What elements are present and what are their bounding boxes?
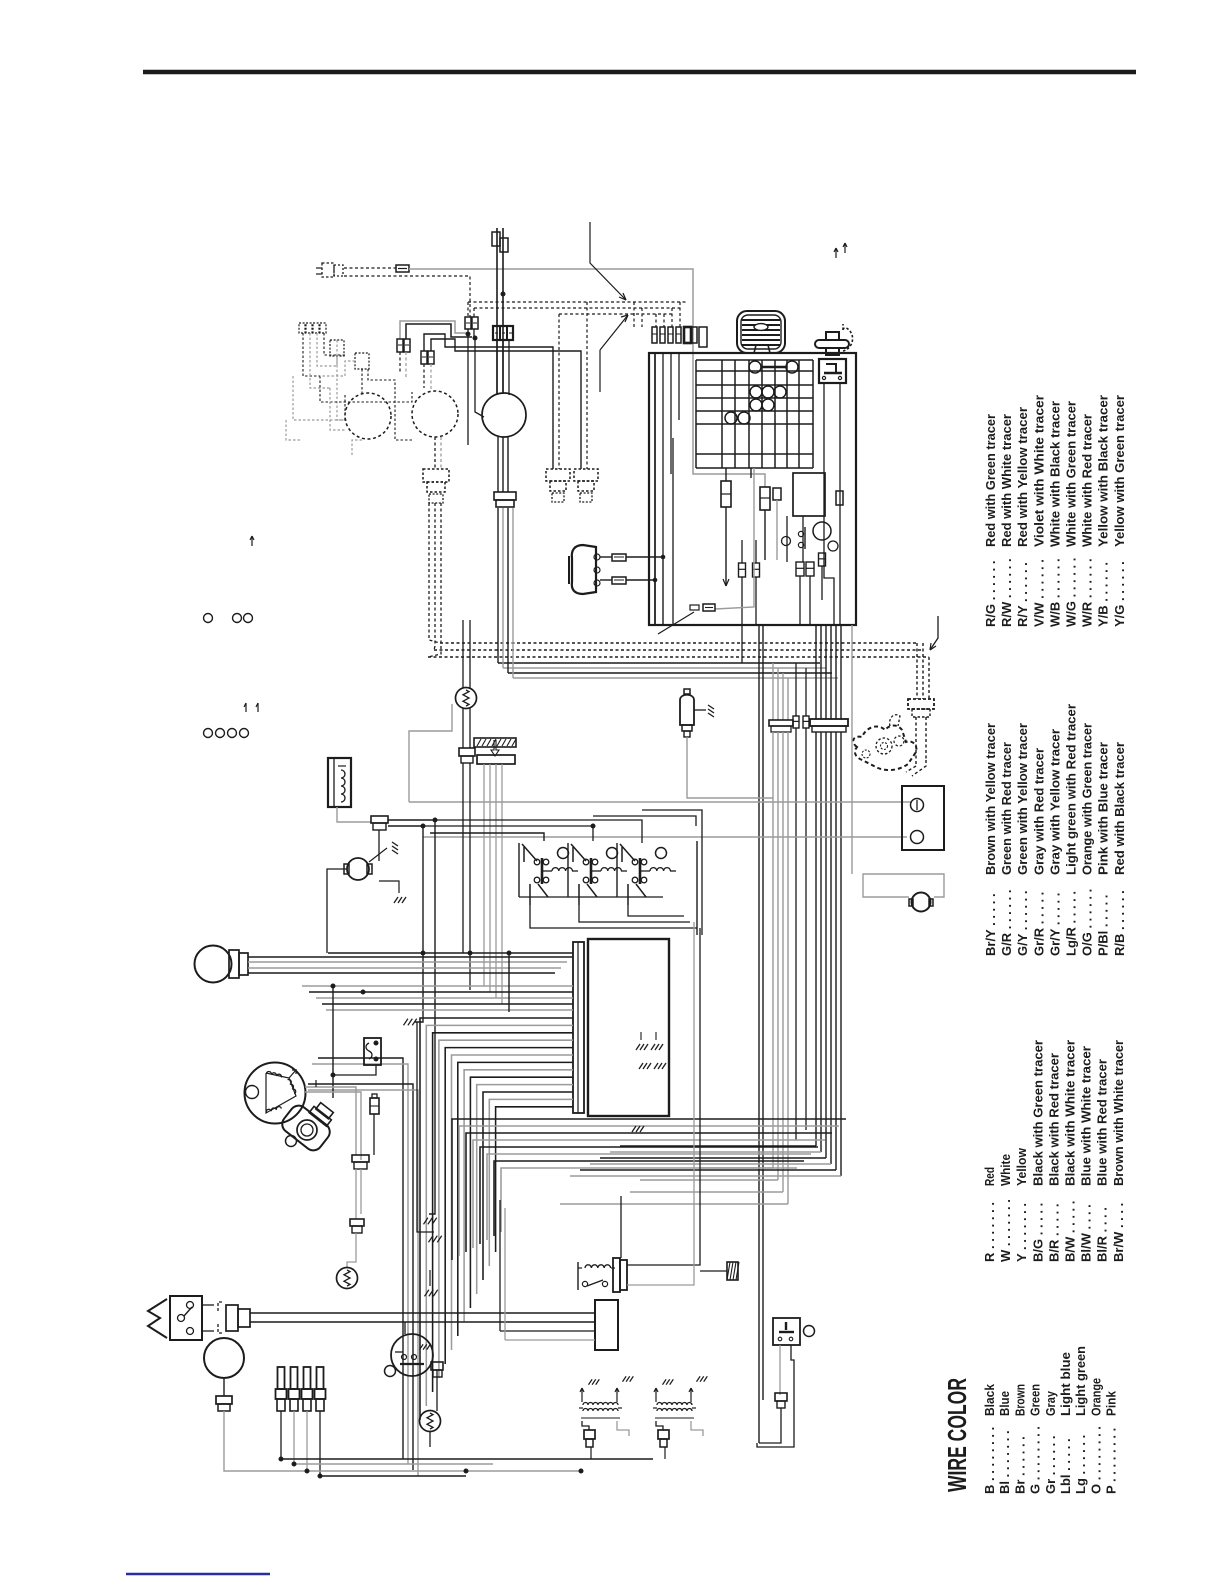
wire [409,269,765,487]
wire [423,826,593,841]
fuse F10 [753,563,760,577]
svg-text:Gray with Yellow tracer: Gray with Yellow tracer [1047,729,1062,875]
contact [798,542,803,547]
svg-text:V/W . . . . . .: V/W . . . . . . [1031,559,1046,627]
wire [369,848,387,862]
ignition switch key [815,324,853,355]
svg-text:Red with Black tracer: Red with Black tracer [1112,742,1127,875]
option lamp pair [233,614,253,623]
wire [755,540,757,563]
turn signal wiring [286,333,412,455]
relay unit 3 [617,843,676,905]
connector [459,748,475,763]
svg-text:R/Y . . . . . .: R/Y . . . . . . [1015,562,1030,627]
wire pair [759,625,763,1443]
fuse F2 [397,339,410,352]
wire [320,1475,466,1477]
svg-text:Green with Red tracer: Green with Red tracer [999,742,1014,875]
svg-text:Lg/R . . . . .: Lg/R . . . . . [1064,891,1079,956]
fuse F1 [396,265,409,272]
option lamp row [204,729,249,738]
svg-text:Bl/R . . . .: Bl/R . . . . [1095,1207,1110,1262]
fuse F3 [421,351,434,364]
wire [620,1196,622,1258]
wire [436,1370,438,1411]
wire [723,507,729,586]
svg-text:WIRE COLOR: WIRE COLOR [942,1378,972,1492]
svg-text:Red with Yellow tracer: Red with Yellow tracer [1015,407,1030,547]
svg-text:Black: Black [982,1383,997,1416]
lower wire fan [452,1119,846,1260]
wire [508,953,510,1012]
relay unit 1 [519,843,578,905]
spark plug cap 2 [289,1367,300,1411]
pointer arrow [930,616,938,650]
ground [394,897,406,903]
svg-text:Brown with White tracer: Brown with White tracer [1111,1040,1126,1186]
wire [559,313,672,315]
wire [360,1169,362,1214]
wire [306,1411,308,1470]
wire [696,841,698,935]
lamp connector [355,353,369,369]
ignition switch lead arrows [834,243,847,258]
regulator [364,1038,381,1065]
fuse F7 [760,487,770,510]
svg-text:Red with White tracer: Red with White tracer [999,414,1014,547]
svg-text:Pink: Pink [1104,1390,1119,1416]
wire [468,301,688,303]
bulb B4 [725,412,750,424]
wire [655,353,679,580]
wire [507,508,509,673]
wire [741,540,743,563]
frame sketch detail [862,715,904,758]
svg-text:Br/Y . . . . .: Br/Y . . . . . [983,893,998,956]
wire [786,516,788,562]
svg-text:White: White [998,1154,1013,1186]
arrow [250,536,254,546]
small circle [828,541,838,551]
wire [626,579,655,581]
wire [251,1470,581,1472]
thermo unit [420,1411,441,1432]
wire [700,1270,727,1272]
wire [503,667,826,669]
wire [725,468,727,481]
wire [851,625,853,874]
wire [791,1345,794,1400]
alternator [245,1063,306,1124]
wire [513,677,838,679]
wire [654,580,656,625]
ground [424,1218,437,1225]
svg-text:Violet with White tracer: Violet with White tracer [1031,395,1046,547]
wire [671,308,673,327]
svg-text:Red: Red [982,1167,997,1186]
svg-text:W/B . . . . . .: W/B . . . . . . [1047,558,1062,627]
svg-text:R/B . . . . . .: R/B . . . . . . [1112,890,1127,956]
wire [333,1065,376,1075]
bottom blue rule [126,1573,270,1576]
wire [640,1032,642,1040]
wire loop [759,1408,781,1443]
wire [694,709,706,711]
wire bundle [816,625,841,719]
wire [802,516,804,562]
wire [654,353,656,625]
svg-text:W/G . . . . . .: W/G . . . . . . [1064,558,1079,627]
wire [821,566,823,600]
wire [498,662,820,664]
wire loop2 [757,1400,794,1447]
contact [782,537,791,546]
pointer line [590,222,626,300]
lamp [385,1366,396,1377]
wire [224,1411,251,1471]
wire bundle [773,732,788,1204]
ground block [727,1262,739,1280]
wire [428,503,441,657]
wire [337,807,371,822]
headlight [195,946,249,983]
svg-text:Light green with Red tracer: Light green with Red tracer [1064,704,1079,875]
wire [332,1075,334,1098]
spark plug cap 1 [276,1367,287,1411]
svg-text:Black with White tracer: Black with White tracer [1063,1040,1078,1186]
wire bundle [816,732,841,1176]
wire [430,833,544,841]
wire [327,869,347,953]
wire [628,884,684,916]
harness connector [908,699,934,717]
wire [424,334,553,469]
horn low [909,893,933,912]
condenser [680,689,694,737]
connector pin row [652,327,707,347]
main wire bundle [420,1018,573,1420]
wire [500,1330,595,1332]
svg-text:Br . . . . . .: Br . . . . . . [1012,1436,1027,1494]
svg-text:Brown with Yellow tracer: Brown with Yellow tracer [983,723,998,875]
main switch block [793,473,825,516]
wire [741,625,743,663]
wire [663,314,665,327]
wire [474,307,680,309]
wire [502,508,504,668]
wire [600,556,612,558]
wire [430,364,432,390]
wire [627,922,694,1285]
svg-text:Blue: Blue [997,1391,1012,1416]
wire [463,763,470,990]
wire [779,1345,781,1395]
wire [280,1411,282,1459]
bundle connector [810,719,848,732]
wire [431,339,581,469]
wire [497,437,499,492]
top rule [143,70,1136,75]
wire [344,267,396,269]
wire [655,314,657,327]
fuse F8 [773,488,781,500]
svg-text:Red with Green tracer: Red with Green tracer [983,414,998,547]
wire [423,836,907,838]
flasher relay [456,688,477,709]
svg-text:B/G . . . . .: B/G . . . . . [1030,1203,1045,1262]
ignition coil 2 [653,1376,707,1447]
svg-text:White with Green tracer: White with Green tracer [1064,401,1079,547]
pointer line 2 [600,315,628,392]
wire [497,508,499,663]
fuse F15 [612,554,626,561]
small circle [804,1326,815,1337]
turn indicator lamp [345,393,391,439]
wire [502,228,504,394]
wire [662,557,664,625]
frame sketch [853,726,916,771]
svg-text:Light green: Light green [1073,1346,1088,1416]
svg-text:Orange with Green tracer: Orange with Green tracer [1080,723,1095,875]
fuse F5 [472,317,478,329]
svg-text:Y . . . . . . .: Y . . . . . . . [1014,1203,1029,1262]
left wire bundle [308,1058,418,1476]
starter solenoid [773,1318,800,1345]
wire [507,437,509,492]
wire [906,766,916,772]
starter motor [344,858,372,880]
connector [218,1302,268,1333]
wire [429,1431,431,1447]
fuse F6 [721,481,731,507]
wire [281,1458,653,1460]
CDI unit [588,939,669,1116]
junction [653,578,657,582]
plug connector [423,469,449,503]
svg-text:White with Red tracer: White with Red tracer [1080,414,1095,547]
relay unit 2 [568,843,627,905]
bulb B3 [750,399,774,411]
wire [824,382,834,624]
wire [379,881,399,893]
svg-text:Brown: Brown [1012,1384,1027,1416]
connector block [299,323,326,333]
svg-text:Lg . . . . . .: Lg . . . . . . [1073,1435,1088,1494]
svg-text:Yellow: Yellow [1014,1147,1029,1186]
fuse F18 [803,716,809,728]
wire [496,228,498,394]
wire [435,820,642,843]
fuse F11 [796,562,804,576]
wire [294,1463,493,1465]
wire [293,1411,295,1464]
wire [655,1032,657,1040]
svg-text:Bl . . . . . . .: Bl . . . . . . . [997,1430,1012,1494]
wire [315,1080,317,1087]
wire [248,961,567,963]
wire [434,437,436,469]
wire [593,816,696,826]
wire [558,314,560,469]
wire [409,801,912,803]
spark plug lead [546,469,570,502]
fuse panel grid [696,360,813,468]
svg-text:Black with Red tracer: Black with Red tracer [1046,1053,1061,1186]
connector [352,1155,369,1169]
fuse F13 [819,553,826,566]
wire [423,364,425,388]
wire [497,340,509,395]
pilot box [391,1334,433,1376]
wire [839,382,841,624]
lamp connector [330,340,344,356]
wire [600,579,612,581]
wire [809,576,811,625]
wire [344,276,470,317]
svg-text:G . . . . . . . .: G . . . . . . . . [1028,1426,1043,1494]
bulb B1 [749,361,798,373]
horn body [737,311,785,353]
wire bundle [773,663,788,720]
arrow pair [244,703,258,712]
ground [708,705,714,717]
wire [319,1411,321,1476]
wire [440,437,442,469]
wire [378,830,380,861]
fuse F14 [836,491,843,505]
lower rails [560,1146,841,1204]
junction [661,555,665,559]
svg-text:B/R . . . . .: B/R . . . . . [1046,1203,1061,1262]
wire [764,510,766,560]
lamp connector [494,492,516,507]
wire [641,308,643,327]
wire [805,668,807,716]
connector [492,232,508,252]
svg-text:Gr . . . . . .: Gr . . . . . . [1043,1435,1058,1494]
wire [405,352,407,378]
junction [421,818,437,828]
wire [305,1087,356,1155]
wire [388,820,435,1214]
wire [642,810,702,935]
horn [204,1338,244,1378]
wire [404,1322,406,1334]
contact [798,531,803,536]
svg-text:R/G . . . . . .: R/G . . . . . . [983,561,998,627]
pointer [658,612,694,634]
svg-text:Y/B . . . . . .: Y/B . . . . . . [1096,562,1111,627]
fuse F9 [739,563,746,577]
wire [741,577,743,625]
ignition switch [819,359,846,383]
fuse F19 [370,1094,379,1114]
ground [392,842,398,854]
grounds mid [632,1044,666,1132]
rectifier [595,1300,618,1350]
svg-text:Blue with Red tracer: Blue with Red tracer [1095,1059,1110,1186]
svg-text:R/W . . . . . .: R/W . . . . . . [999,558,1014,627]
wire [679,302,681,327]
wire [429,1270,431,1286]
wire [355,1169,357,1219]
wire group [302,953,573,1010]
svg-text:Pink with Blue tracer: Pink with Blue tracer [1096,742,1111,875]
battery [902,786,944,850]
svg-text:Yellow with Green tracer: Yellow with Green tracer [1112,395,1127,547]
svg-text:Br/W . . . .: Br/W . . . . [1111,1203,1126,1262]
resistor unit [328,758,351,807]
wire [915,717,917,766]
speedometer lamp [482,393,526,437]
wire [268,1321,595,1323]
junction [331,951,511,994]
starter relay [578,1258,627,1292]
svg-text:G/R . . . . . .: G/R . . . . . . [999,890,1014,956]
wire [715,468,754,609]
wire [268,1312,595,1314]
wire [305,1092,361,1160]
wire [502,437,504,492]
bundle connector [769,720,793,732]
pickup coil unit [569,545,600,594]
wire [223,1378,225,1396]
svg-text:Y/G . . . . . .: Y/G . . . . . . [1112,561,1127,627]
wire [467,302,469,317]
turnsignal flasher [337,1268,358,1289]
fuse F20 [690,604,715,611]
svg-text:Gray with Red tracer: Gray with Red tracer [1031,748,1046,875]
dimmer switch [148,1296,214,1340]
ground [404,1019,417,1026]
CDI connector bar [573,942,584,1113]
wire [912,760,926,776]
wire [248,967,561,969]
heater strip [474,738,516,747]
wire [579,884,690,922]
spark plug cap 4 [315,1367,326,1411]
svg-text:W . . . . . . .: W . . . . . . . [998,1199,1013,1262]
fuse F12 [806,562,814,576]
svg-text:O . . . . . . . .: O . . . . . . . . [1088,1426,1103,1494]
wire [463,708,470,748]
wire [687,737,773,798]
ground [429,1236,442,1243]
svg-text:Gr/Y . . . . .: Gr/Y . . . . . [1047,893,1062,956]
ignition coil 1 [579,1376,633,1447]
junctions [279,1457,583,1478]
svg-text:P . . . . . . . .: P . . . . . . . . [1104,1428,1119,1494]
wire [429,503,440,643]
wire [795,728,797,1140]
svg-text:Light blue: Light blue [1058,1352,1073,1416]
svg-text:Green: Green [1028,1384,1043,1416]
wire [672,438,674,625]
wire [248,972,555,974]
oil pressure sender [279,1091,342,1154]
fuse box outer case [649,353,856,625]
wire [805,728,807,1130]
arrow down [491,740,499,756]
connector [371,816,388,830]
fuse F4 [465,317,471,329]
svg-text:Bl/W . . . .: Bl/W . . . . [1079,1204,1094,1262]
option lamp [204,614,213,623]
wire [474,329,484,417]
contact bar [804,527,806,549]
handlebar switch connector [316,263,343,277]
ignition circle [813,522,831,540]
